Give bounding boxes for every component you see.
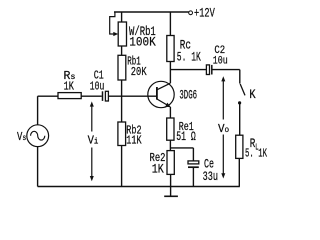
svg-text:5. 1K: 5. 1K [245,147,267,161]
svg-text:Vo: Vo [218,122,229,136]
svg-text:5. 1K: 5. 1K [177,50,201,65]
svg-text:100K: 100K [129,35,156,50]
svg-text:+12V: +12V [194,6,215,21]
svg-text:Vi: Vi [88,134,99,148]
svg-text:10u: 10u [90,80,105,93]
svg-text:Vs: Vs [17,131,26,144]
svg-text:1K: 1K [152,163,164,177]
svg-text:20K: 20K [131,66,147,79]
svg-text:1K: 1K [64,81,74,94]
svg-text:51 Ω: 51 Ω [176,130,196,144]
svg-text:K: K [249,88,256,102]
svg-text:33u: 33u [203,170,218,184]
svg-text:3DG6: 3DG6 [179,88,197,102]
svg-text:11K: 11K [126,135,141,148]
svg-text:10u: 10u [213,56,228,68]
